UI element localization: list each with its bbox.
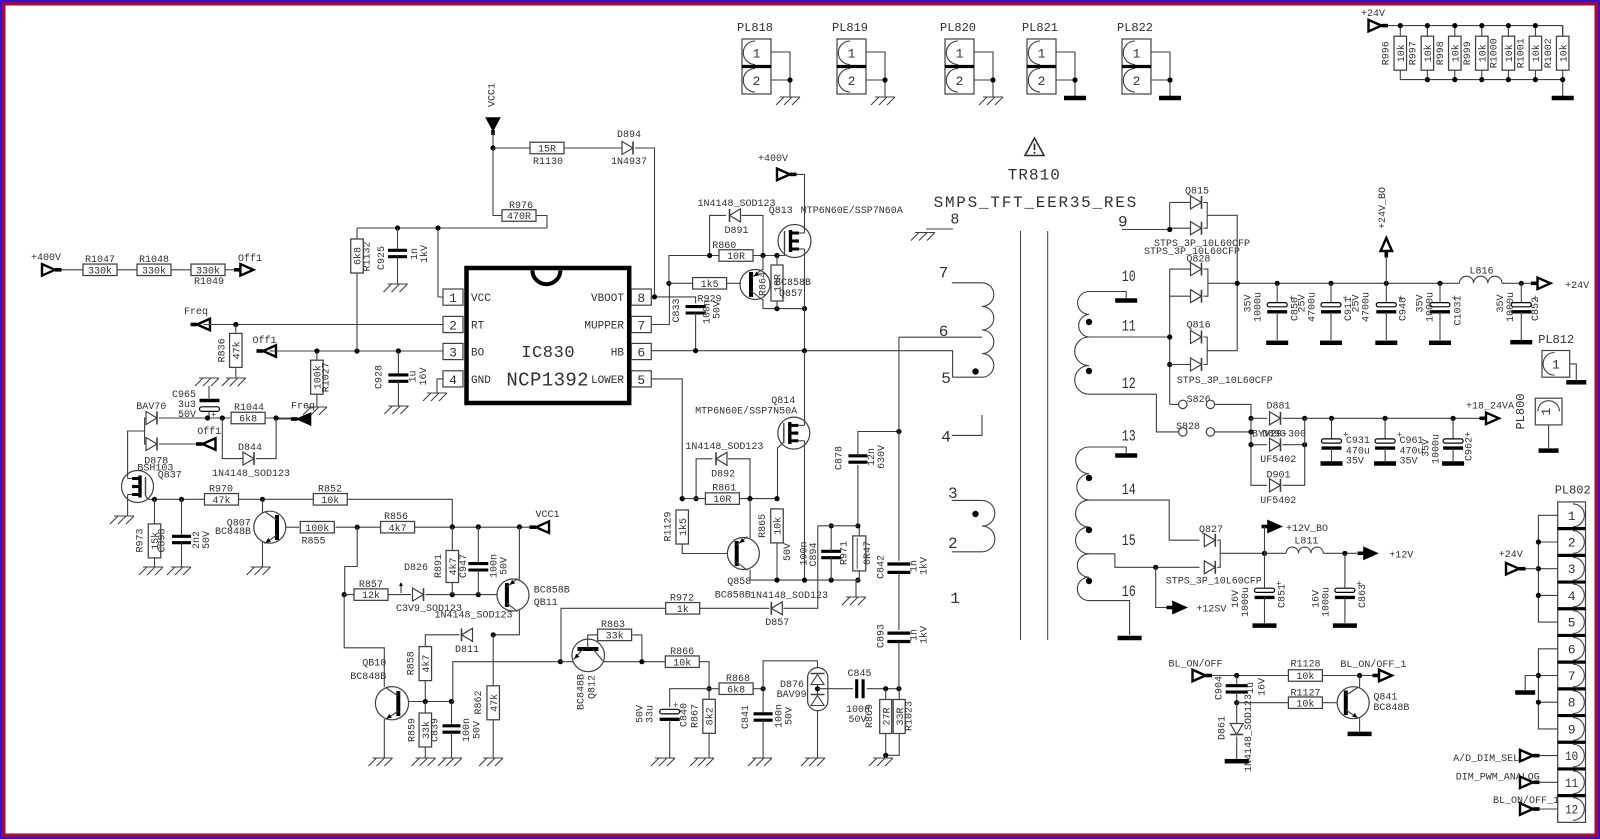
svg-text:50V: 50V xyxy=(785,707,796,725)
svg-text:R864: R864 xyxy=(759,272,770,296)
svg-text:C852: C852 xyxy=(1531,297,1542,321)
svg-text:L811: L811 xyxy=(1294,537,1318,548)
capacitor C893 1n 1kV xyxy=(887,633,910,641)
ground PL820 xyxy=(979,97,1003,105)
svg-text:5: 5 xyxy=(1568,616,1576,631)
svg-text:6: 6 xyxy=(939,323,949,341)
capacitor C841 100n 50V xyxy=(762,689,764,714)
ground bar at PL812 xyxy=(1566,380,1586,385)
wire Q816 anode vertical xyxy=(1169,269,1171,404)
svg-text:+: + xyxy=(211,411,216,421)
svg-text:L816: L816 xyxy=(1470,266,1494,277)
svg-text:C898: C898 xyxy=(158,528,169,552)
wire Q857 emitter up xyxy=(762,256,763,270)
wire BL_ON/OFF_1 to pin12 xyxy=(1540,808,1558,810)
ground bar under C961 xyxy=(1374,461,1396,466)
capacitor C948 4700u 25V xyxy=(1385,283,1387,302)
svg-text:A/D_DIM_SEL: A/D_DIM_SEL xyxy=(1453,753,1519,765)
wire R971 bottom to ground xyxy=(856,571,859,597)
resistor R996 10k xyxy=(1399,26,1401,37)
wire transformer pin8 stub xyxy=(926,228,953,230)
svg-text:D826: D826 xyxy=(404,563,428,574)
resistor R1027 100k xyxy=(316,351,318,360)
wire PL820 pin2 to ground xyxy=(974,80,993,97)
svg-text:PL819: PL819 xyxy=(832,21,868,35)
resistor R864 10R (vertical) xyxy=(771,265,783,301)
wire C894 top xyxy=(830,526,832,552)
wire Q812 emitter to junction xyxy=(560,661,573,663)
wire Q812 base up to R863 xyxy=(588,635,597,649)
svg-text:2: 2 xyxy=(449,319,457,334)
ground under QB10 xyxy=(369,758,393,766)
resistor R860 10R xyxy=(719,250,753,262)
wire R1048-R1049 xyxy=(171,269,191,271)
wire R862 to ground xyxy=(492,720,494,758)
svg-text:10: 10 xyxy=(1122,268,1136,286)
PL802 pin 9 xyxy=(1558,716,1586,743)
diode D892 1N4148_SOD123 xyxy=(696,459,712,499)
svg-text:BC848B: BC848B xyxy=(1373,703,1409,714)
wire transformer pin16 stub to ground xyxy=(1089,601,1130,635)
svg-text:100n: 100n xyxy=(462,718,473,742)
wire Q837 source to ground xyxy=(127,502,129,516)
svg-text:4: 4 xyxy=(449,373,457,388)
svg-text:C839: C839 xyxy=(431,718,442,742)
wire Q815 anodes xyxy=(1170,201,1191,203)
svg-text:11: 11 xyxy=(1122,318,1136,336)
svg-text:R972: R972 xyxy=(670,594,694,605)
resistor R973 15k (vertical) xyxy=(154,499,156,523)
ground PL818 xyxy=(776,97,800,105)
wire Q812 collector to R866 xyxy=(603,661,665,663)
wire Q815 cathodes to +24V rail xyxy=(1204,202,1208,228)
phase dot near pin 15 xyxy=(1086,527,1092,533)
svg-text:50V: 50V xyxy=(713,301,724,319)
wire D844 to R1044 right xyxy=(256,418,276,459)
svg-text:+24V: +24V xyxy=(1361,9,1385,20)
svg-text:C841: C841 xyxy=(741,705,752,729)
svg-text:50V: 50V xyxy=(500,557,511,575)
svg-text:50V: 50V xyxy=(178,410,196,421)
capacitor C1031 1000u 35V xyxy=(1439,283,1441,302)
svg-text:R836: R836 xyxy=(218,338,229,362)
svg-text:MTP6N60E/SSP7N50A: MTP6N60E/SSP7N50A xyxy=(695,406,797,418)
svg-text:Q812: Q812 xyxy=(588,675,599,699)
svg-text:BC858B: BC858B xyxy=(534,586,570,597)
resistor R863 33k xyxy=(598,629,632,641)
PL802 pin 4 xyxy=(1558,582,1586,609)
IC830 pin 3 BO xyxy=(443,343,463,359)
wire C898 to ground xyxy=(181,543,183,567)
wire A/D_DIM_SEL to pin10 xyxy=(1540,755,1558,757)
resistor R857 12k xyxy=(344,594,354,596)
resistor R836 47k xyxy=(235,325,237,333)
wire D811 to R858 xyxy=(425,635,459,647)
svg-text:10: 10 xyxy=(1565,749,1578,764)
svg-text:+: + xyxy=(673,701,678,711)
PL802 pin 5 xyxy=(1558,609,1586,636)
svg-text:+24V: +24V xyxy=(1565,281,1589,292)
PL802 pin 10 xyxy=(1558,742,1586,769)
ground under C928 xyxy=(384,406,408,414)
svg-text:C878: C878 xyxy=(835,446,846,470)
wire Q827 output to L811 line xyxy=(1220,552,1264,554)
wire QB11 emitter up to VCC1 line xyxy=(518,527,520,579)
wire transformer pin3 stub xyxy=(952,499,982,501)
wire transformer pin11 to rectifiers xyxy=(1089,336,1170,338)
wire C925 to ground xyxy=(397,257,399,284)
svg-text:BC848B: BC848B xyxy=(215,527,251,538)
wire Q837 to R970 line xyxy=(154,498,204,500)
transformer secondary winding 10-11 xyxy=(1078,292,1089,338)
capacitor C928 1u 16V xyxy=(397,351,399,375)
ground under IC pin4 xyxy=(423,393,447,401)
wire C839 to ground xyxy=(451,732,453,758)
ground bar under C1031 xyxy=(1429,341,1451,346)
ground under R869 xyxy=(869,758,893,766)
svg-text:7: 7 xyxy=(637,319,645,334)
capacitor C878 12n 630V xyxy=(857,465,859,526)
wire VCC1 to R976 xyxy=(493,148,502,216)
wire C928 to ground xyxy=(397,381,399,406)
wire R856 to VCC1 flag line xyxy=(415,526,530,528)
transformer core xyxy=(1020,231,1022,640)
svg-text:R868: R868 xyxy=(726,674,750,685)
svg-text:4: 4 xyxy=(941,429,951,447)
wire R852 to VCC1 line xyxy=(348,499,452,527)
svg-text:R1047: R1047 xyxy=(85,255,115,266)
svg-text:BC848B: BC848B xyxy=(577,674,588,710)
capacitor C961 470u 35V xyxy=(1384,418,1386,439)
svg-text:BL_ON/OFF_1: BL_ON/OFF_1 xyxy=(1340,659,1406,671)
transistor Q807 BC848B (NPN) xyxy=(254,511,286,543)
ground bar under C948 xyxy=(1375,341,1397,346)
svg-text:10k: 10k xyxy=(1504,44,1516,62)
ground under C841 xyxy=(748,758,772,766)
wire D857 to R972 xyxy=(700,607,770,609)
wire D826 to QB11 base xyxy=(426,594,498,596)
wire C878 top to resonant node xyxy=(858,432,899,456)
transformer secondary winding 15-16 xyxy=(1077,554,1089,601)
phase dot near pin 3 xyxy=(972,511,978,517)
svg-text:R976: R976 xyxy=(509,201,533,212)
wire transformer pin10 stub to ground xyxy=(1089,292,1126,299)
svg-text:Q814: Q814 xyxy=(771,396,795,407)
svg-text:12k: 12k xyxy=(362,590,380,602)
svg-text:HB: HB xyxy=(611,348,625,360)
svg-text:27R: 27R xyxy=(882,707,893,725)
ground bar under Q841 xyxy=(1348,732,1372,737)
ground bar under R1002 xyxy=(1552,96,1574,101)
wire LOWER pin5 to driver line xyxy=(651,379,682,499)
resistor R997 10k xyxy=(1426,26,1428,37)
capacitor C962 1000u 35V xyxy=(1452,418,1454,439)
svg-text:2: 2 xyxy=(848,74,856,89)
wire QB10 emitter to ground xyxy=(383,719,385,758)
svg-text:8: 8 xyxy=(637,291,645,306)
wire D876 middle to C845 xyxy=(818,688,854,690)
wire resonant node vertical xyxy=(898,337,900,561)
wire R970 to R852 xyxy=(239,498,313,500)
svg-text:BAV70: BAV70 xyxy=(136,402,166,413)
svg-text:Q813: Q813 xyxy=(769,206,793,217)
wire QB11 collector down to D811 line xyxy=(493,611,519,635)
svg-text:D892: D892 xyxy=(711,470,735,481)
svg-text:D811: D811 xyxy=(455,645,479,656)
transistor Q812 BC848B (NPN, rotated) xyxy=(572,639,605,672)
wire C842 to C893 xyxy=(898,572,900,630)
wire R855 to R856 xyxy=(335,526,380,528)
ground bar under C931 xyxy=(1321,461,1343,466)
wire R1044 to Freq flag xyxy=(265,417,291,419)
svg-text:R891: R891 xyxy=(434,554,445,578)
ground under R1027 xyxy=(303,407,327,415)
wire Q858 emitter up xyxy=(749,499,751,538)
svg-text:R857: R857 xyxy=(359,580,383,591)
IC830 pin 7 MUPPER xyxy=(631,316,651,332)
wire Q814 source down to sense line xyxy=(804,449,806,580)
svg-text:12: 12 xyxy=(1565,803,1578,818)
wire R861 to R865/gate junction xyxy=(740,498,777,500)
diode D826 C3V9_SOD123 (zener) xyxy=(413,588,424,601)
svg-text:R971: R971 xyxy=(839,541,850,565)
svg-text:C948: C948 xyxy=(1399,297,1410,321)
wire PL819 pin1 to pin2 xyxy=(866,52,885,80)
wire C841 to ground xyxy=(762,720,764,758)
wire R857 to D826 xyxy=(388,594,411,596)
diode BAV70 (top) xyxy=(146,412,157,425)
svg-text:C833: C833 xyxy=(672,298,683,322)
wire R866 to R868 junction xyxy=(699,662,709,689)
wire transformer pin13 stub to ground xyxy=(1089,447,1126,453)
resistor R1049 330k xyxy=(191,264,225,276)
PL802 pin 2 xyxy=(1558,529,1586,556)
resistor R970 47k xyxy=(205,494,239,506)
svg-text:SMPS_TFT_EER35_RES: SMPS_TFT_EER35_RES xyxy=(934,194,1138,212)
capacitor C840 33u 50V (electrolytic) xyxy=(660,709,680,714)
svg-text:1: 1 xyxy=(1539,407,1554,415)
svg-text:R860: R860 xyxy=(712,241,736,252)
svg-text:R997: R997 xyxy=(1409,41,1420,65)
resistor R862 47k (vertical) xyxy=(487,686,500,720)
svg-text:C863: C863 xyxy=(1358,584,1369,608)
svg-text:UF5402: UF5402 xyxy=(1260,455,1296,466)
svg-text:+12V: +12V xyxy=(1389,551,1413,562)
wire D892 to emitter junction xyxy=(728,459,750,499)
svg-text:50V: 50V xyxy=(849,715,867,726)
wire R1127 to Q841 base xyxy=(1322,702,1337,704)
svg-text:D891: D891 xyxy=(725,226,749,237)
resistor R1127 10k xyxy=(1237,702,1289,704)
svg-text:D857: D857 xyxy=(765,618,789,629)
resistor R976 470R xyxy=(502,210,536,222)
ground under R859 xyxy=(412,758,436,766)
svg-text:14: 14 xyxy=(1122,481,1136,499)
wire +18_24VA rail xyxy=(1305,417,1482,419)
svg-text:+18_24VA: +18_24VA xyxy=(1466,402,1514,413)
svg-text:D844: D844 xyxy=(238,443,262,454)
svg-text:10k: 10k xyxy=(1423,44,1435,62)
wire transformer pin12 to S828 xyxy=(1089,394,1179,432)
transistor Q841 BC848B (NPN) xyxy=(1337,687,1369,719)
transistor Q858 BC858B (PNP) xyxy=(727,538,759,570)
wire PL812 to ground xyxy=(1570,364,1577,380)
svg-text:Off1: Off1 xyxy=(238,253,262,265)
wire R1129 to Q858 base xyxy=(682,544,728,554)
svg-text:6: 6 xyxy=(1568,642,1576,657)
resistor R972 1k xyxy=(666,603,700,615)
capacitor C904 1u 16V xyxy=(1236,676,1238,686)
capacitor C947 100n 50V xyxy=(477,527,479,564)
svg-text:R866: R866 xyxy=(670,647,694,658)
wire PL818 pin1 to pin2 xyxy=(771,52,790,80)
resistor R852 10k xyxy=(313,494,347,506)
net +24V flag (right) xyxy=(1531,281,1538,285)
svg-text:2: 2 xyxy=(956,74,964,89)
ground bar at PL802 pin7 xyxy=(1515,690,1535,695)
svg-text:6: 6 xyxy=(637,346,645,361)
svg-text:R998: R998 xyxy=(1436,41,1447,65)
svg-text:2: 2 xyxy=(1133,74,1141,89)
phase dot near pin 11 xyxy=(1086,319,1092,325)
wire R836 to ground xyxy=(235,368,237,378)
wire Q807 base to R855 xyxy=(286,526,299,528)
svg-text:12: 12 xyxy=(1122,375,1136,393)
wire R1049 to Off1 xyxy=(225,269,234,271)
wire C904 to R1127 line xyxy=(1236,692,1238,703)
op-amp U1 IC830 NCP1392 body xyxy=(467,268,630,403)
svg-text:16: 16 xyxy=(1122,583,1136,601)
resistor R869 27R (vertical) xyxy=(880,700,892,734)
svg-text:VCC: VCC xyxy=(471,293,491,305)
svg-text:50V: 50V xyxy=(783,543,794,561)
svg-text:10k: 10k xyxy=(1296,671,1314,683)
transistor Q857 BC858B (PNP) xyxy=(740,270,770,300)
svg-text:10k: 10k xyxy=(773,517,785,535)
wire PL821 pin1 to pin2 xyxy=(1056,52,1075,80)
svg-text:1N4937: 1N4937 xyxy=(611,157,647,168)
warning triangle xyxy=(1025,138,1044,156)
svg-text:BC858B: BC858B xyxy=(775,278,811,289)
wire D861 to ground xyxy=(1236,737,1238,759)
svg-text:33u: 33u xyxy=(646,705,657,723)
ground bar at pin 13 xyxy=(1115,453,1137,458)
diode D857 1N4148_SOD123 xyxy=(771,602,782,615)
ground above C965 xyxy=(195,378,219,386)
svg-text:33k: 33k xyxy=(606,631,624,643)
svg-text:R1129: R1129 xyxy=(663,511,674,541)
svg-text:R855: R855 xyxy=(302,537,326,548)
ground bar at PL800 xyxy=(1539,448,1559,453)
svg-text:+24V_BO: +24V_BO xyxy=(1378,187,1389,229)
wire R891 leads xyxy=(451,527,453,551)
svg-text:PL820: PL820 xyxy=(940,21,976,35)
ground bar at pin 16 xyxy=(1118,636,1142,641)
svg-text:VBOOT: VBOOT xyxy=(591,293,624,305)
ground under R867 xyxy=(690,758,714,766)
svg-text:1: 1 xyxy=(753,46,761,61)
svg-text:+12SV: +12SV xyxy=(1196,605,1226,616)
wire PL822 pin1 to pin2 xyxy=(1151,52,1170,80)
wire BAV70 top cathode to R1044 line xyxy=(159,417,230,419)
svg-text:Q857: Q857 xyxy=(779,289,803,300)
net +12V flag xyxy=(1358,551,1365,555)
IC830 pin 1 VCC xyxy=(443,289,463,305)
transformer secondary winding 13-14 xyxy=(1076,447,1089,500)
transformer secondary winding 11-12 xyxy=(1075,337,1089,394)
wire PL819 pin2 to ground xyxy=(866,80,885,97)
wire PL818 pin2 to ground xyxy=(771,80,790,97)
ground bar under D861 xyxy=(1225,759,1249,764)
resistor R1130 15R xyxy=(493,147,530,149)
wire bottom rail resistor bank xyxy=(1400,70,1562,96)
capacitor C852 1000u 35V xyxy=(1520,283,1522,302)
svg-text:1000u: 1000u xyxy=(1506,292,1517,322)
svg-text:RT: RT xyxy=(471,321,485,333)
wire R976 to VCC top rail xyxy=(357,216,547,229)
svg-text:R852: R852 xyxy=(318,484,342,495)
PL802 pin 11 xyxy=(1558,769,1586,796)
wire +24V_BO down to rail xyxy=(1385,256,1387,283)
wire transformer pin2 stub xyxy=(952,551,982,553)
svg-text:PL821: PL821 xyxy=(1022,21,1058,35)
svg-text:1000u: 1000u xyxy=(1322,587,1333,617)
transformer primary winding 7-5 xyxy=(982,283,994,377)
ground PL822 xyxy=(1159,96,1181,101)
svg-text:BC848B: BC848B xyxy=(350,672,386,683)
svg-text:10k: 10k xyxy=(1296,698,1314,710)
wire D894 to VBOOT net (down to pin8) xyxy=(635,148,655,297)
svg-text:1N4148_SOD123: 1N4148_SOD123 xyxy=(685,442,763,453)
wire R1047-R1048 xyxy=(117,269,137,271)
svg-text:10R: 10R xyxy=(727,252,745,263)
svg-text:35V: 35V xyxy=(1346,457,1364,468)
svg-text:35V: 35V xyxy=(1400,457,1418,468)
svg-text:R867: R867 xyxy=(691,704,702,728)
svg-text:630V: 630V xyxy=(877,445,888,469)
ground under C925 xyxy=(384,284,408,292)
svg-text:7: 7 xyxy=(1568,669,1576,684)
svg-text:C893: C893 xyxy=(877,624,888,648)
capacitor C925 1n 1kV xyxy=(397,228,399,250)
wire Freq flag to R1044 junction xyxy=(276,418,291,420)
wire VBOOT pin8 to C833 xyxy=(651,297,695,303)
resistor R868 6k8 xyxy=(709,688,719,690)
ground under D876 xyxy=(801,758,825,766)
svg-text:R856: R856 xyxy=(384,512,408,523)
capacitor C850 1000u 35V xyxy=(1276,283,1278,302)
wire BAV70 anodes join xyxy=(145,418,146,444)
IC830 pin 4 GND xyxy=(443,371,463,387)
wire C947 bottom xyxy=(477,570,479,595)
wire R869/R1023 bottoms xyxy=(885,689,887,700)
svg-text:1N4148_SOD123: 1N4148_SOD123 xyxy=(212,469,290,480)
phase dot near pin 14 xyxy=(1086,475,1092,481)
svg-text:Q858: Q858 xyxy=(727,577,751,588)
svg-text:4k7: 4k7 xyxy=(421,655,433,673)
dual diode D876 BAV99 xyxy=(808,668,828,711)
svg-text:PL802: PL802 xyxy=(1555,484,1591,498)
wire Q858 collector down to sense line xyxy=(749,570,751,581)
svg-text:TR810: TR810 xyxy=(1008,167,1061,185)
svg-text:Freq: Freq xyxy=(184,307,208,318)
transistor QB10 BC848B (NPN) xyxy=(375,687,408,720)
svg-text:1k5: 1k5 xyxy=(701,279,719,291)
svg-text:R858: R858 xyxy=(407,651,418,675)
svg-text:C931: C931 xyxy=(1346,436,1370,447)
svg-text:R996: R996 xyxy=(1382,41,1393,65)
capacitor C931 470u 35V xyxy=(1331,418,1333,439)
